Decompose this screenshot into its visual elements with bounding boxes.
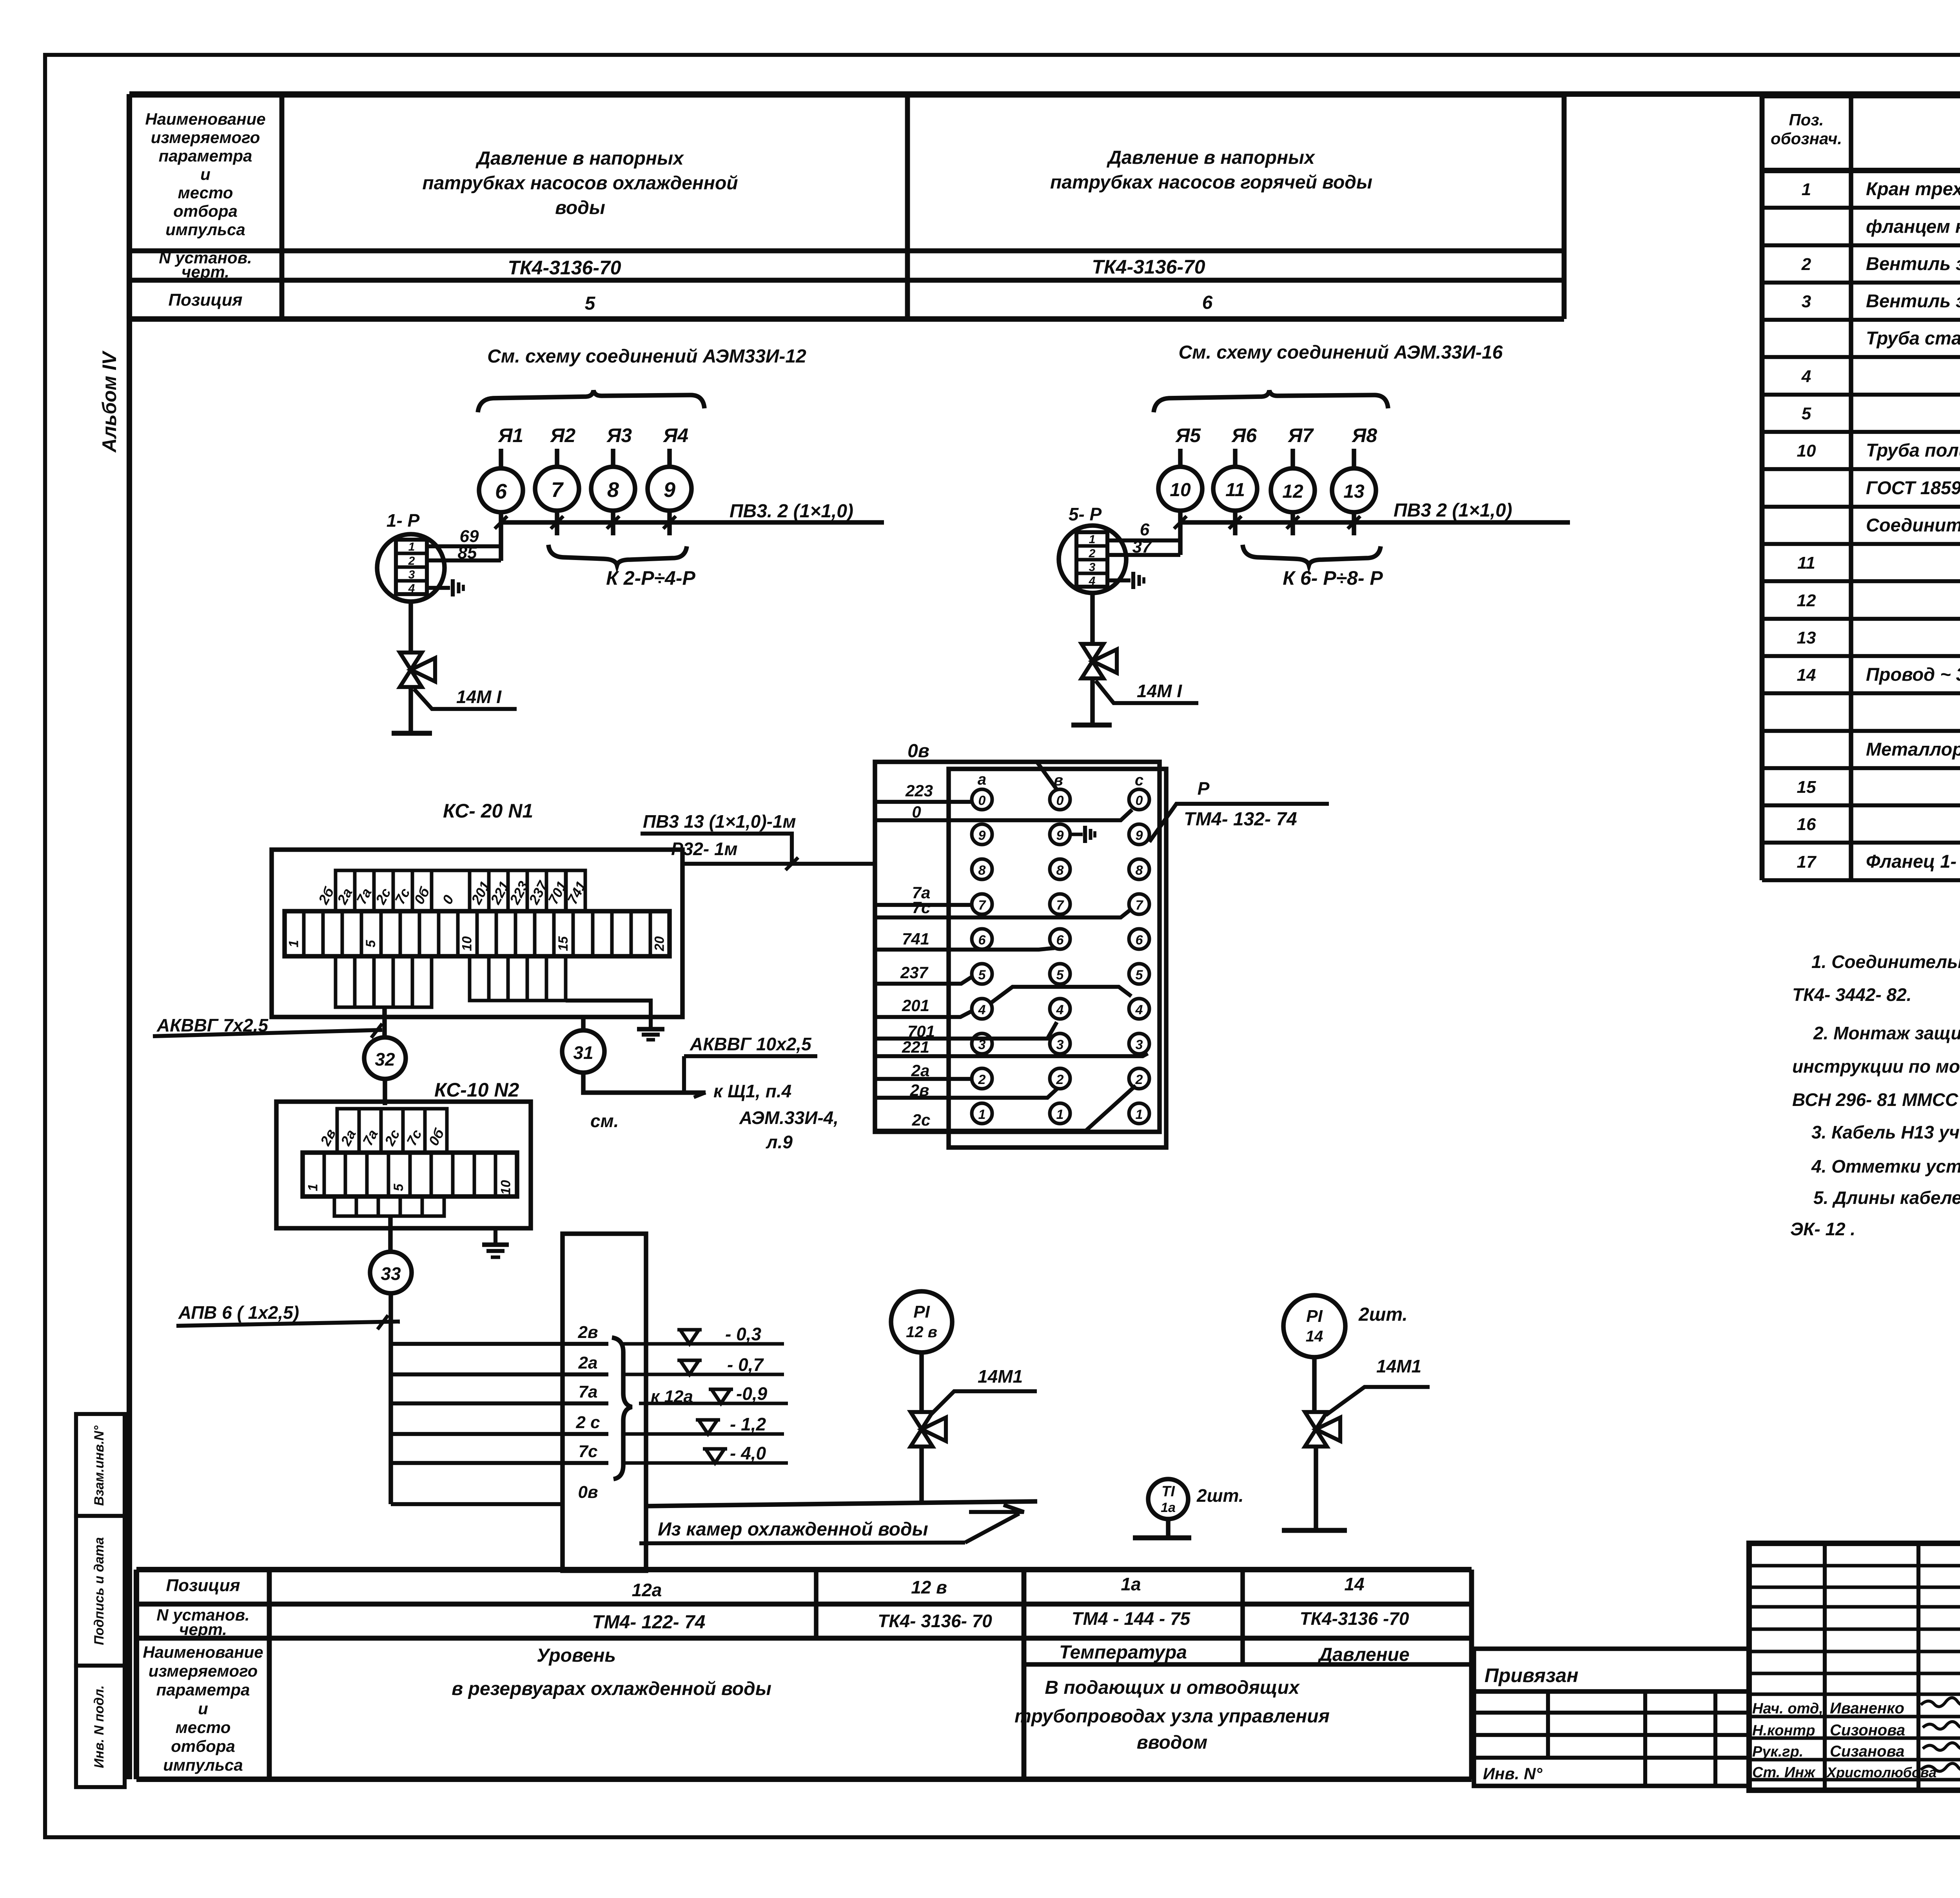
svg-text:Давление в напорных: Давление в напорных	[475, 148, 684, 169]
wire 37	[1107, 553, 1180, 557]
matrix terminal circles	[972, 789, 992, 810]
svg-text:2 с: 2 с	[575, 1413, 600, 1432]
svg-text:5: 5	[391, 1183, 406, 1191]
svg-text:АКВВГ 10х2,5: АКВВГ 10х2,5	[690, 1034, 812, 1054]
svg-text:с: с	[1135, 772, 1143, 789]
svg-text:Я8: Я8	[1351, 424, 1377, 446]
svg-text:л.9: л.9	[766, 1132, 793, 1152]
svg-text:Сизонова: Сизонова	[1830, 1722, 1905, 1739]
svg-text:Иваненко: Иваненко	[1830, 1700, 1904, 1717]
instrument circle 12	[1271, 468, 1315, 512]
svg-text:Фланец 1- 25 - 2,5 ст. 25: Фланец 1- 25 - 2,5 ст. 25 ГОСТ 12820 - 8…	[1866, 851, 1960, 872]
svg-text:16: 16	[1797, 815, 1816, 834]
svg-text:12: 12	[1797, 591, 1816, 610]
svg-text:черт.: черт.	[179, 1620, 227, 1639]
instrument circle 7	[535, 467, 579, 511]
svg-text:параметра: параметра	[156, 1680, 250, 1699]
wire KS-20 to 0v terminal box	[682, 862, 874, 866]
level wire 7a	[391, 1401, 608, 1405]
svg-text:2: 2	[1135, 1072, 1143, 1087]
svg-text:1: 1	[978, 1107, 986, 1122]
svg-text:Ст. Инж: Ст. Инж	[1752, 1764, 1816, 1781]
matrix wire 7c	[875, 908, 1132, 917]
privyazan box	[1474, 1649, 1749, 1691]
svg-text:Температура: Температура	[1059, 1642, 1187, 1663]
three-way valve 14MI group2	[1082, 644, 1103, 661]
svg-text:См. схему соединений АЭ: См. схему соединений АЭМ.33И-16	[1179, 342, 1503, 363]
cable 32 stem	[382, 1007, 387, 1037]
svg-text:3. Кабель Н13 учтен в ка: 3. Кабель Н13 учтен в кабельном журнале …	[1811, 1122, 1960, 1142]
shield ground of sensor 1-R	[427, 586, 450, 590]
svg-text:Нач. отд,: Нач. отд,	[1752, 1700, 1823, 1717]
svg-text:Провод ~ 380 В ГОСТ 6323- 79: Провод ~ 380 В ГОСТ 6323- 79 сечением	[1866, 664, 1960, 685]
svg-text:1: 1	[305, 1184, 320, 1191]
svg-text:5: 5	[1056, 968, 1064, 983]
water line from reservoir	[646, 1501, 1037, 1506]
stems from tags to instrument circles	[499, 449, 503, 468]
svg-text:Позиция: Позиция	[168, 290, 242, 310]
svg-text:ТМ4- 122- 74: ТМ4- 122- 74	[592, 1612, 706, 1633]
svg-text:Я2: Я2	[550, 424, 575, 446]
three-way valve 14MI group1	[400, 653, 422, 670]
svg-text:1: 1	[408, 540, 415, 553]
svg-text:2: 2	[408, 555, 415, 567]
thermometer TI 1a	[1148, 1479, 1188, 1519]
svg-text:9: 9	[664, 478, 675, 502]
svg-text:20: 20	[652, 936, 667, 952]
svg-text:2в: 2в	[577, 1323, 598, 1342]
svg-text:2а: 2а	[578, 1353, 598, 1372]
svg-text:10: 10	[499, 1180, 514, 1195]
stem circle32 to KC-10	[383, 1079, 387, 1105]
svg-text:3: 3	[1089, 561, 1096, 574]
matrix row4 jumper	[991, 987, 1131, 1003]
svg-text:3: 3	[408, 568, 415, 581]
svg-text:3: 3	[1056, 1037, 1064, 1052]
svg-text:импульса: импульса	[163, 1756, 243, 1774]
KC-10 lower terminal lugs	[334, 1196, 356, 1216]
KC-20 terminal strip 20 cells	[285, 911, 670, 956]
svg-text:отбора: отбора	[171, 1737, 235, 1755]
svg-text:Труба полиэтиленовая 10Т: Труба полиэтиленовая 10Т	[1866, 440, 1960, 460]
svg-text:5. Длины кабелей учт: 5. Длины кабелей учтены в кабельном журн…	[1813, 1187, 1960, 1208]
svg-text:В подающих и отводящих: В подающих и отводящих	[1045, 1677, 1300, 1698]
level wire 7c	[391, 1461, 608, 1465]
svg-text:3: 3	[1802, 292, 1811, 311]
svg-text:5: 5	[363, 939, 378, 947]
matrix wire 223	[875, 800, 972, 804]
svg-text:8: 8	[978, 863, 986, 878]
svg-text:2: 2	[1089, 547, 1096, 560]
svg-text:- 0,7: - 0,7	[727, 1354, 764, 1375]
svg-text:2с: 2с	[912, 1111, 931, 1129]
svg-text:0: 0	[978, 793, 986, 808]
signature rows	[1749, 1564, 1960, 1568]
svg-text:9: 9	[978, 828, 986, 843]
svg-text:ВСН 296- 81 ММСС СССР.: ВСН 296- 81 ММСС СССР.	[1792, 1089, 1960, 1110]
svg-text:Р: Р	[1198, 778, 1210, 799]
svg-text:7: 7	[978, 898, 987, 913]
svg-text:Я7: Я7	[1287, 424, 1314, 446]
svg-text:PI: PI	[913, 1302, 930, 1322]
svg-text:обознач.: обознач.	[1771, 129, 1842, 148]
svg-text:ТК4- 3136- 70: ТК4- 3136- 70	[878, 1611, 992, 1631]
svg-text:Вентиль запорный Ду32 15: Вентиль запорный Ду32 15 ч8 п2	[1866, 290, 1960, 311]
pipe stub ground group2	[1090, 678, 1095, 725]
shield symbol at b9	[1070, 833, 1083, 836]
svg-text:10: 10	[459, 936, 474, 951]
svg-text:14М I: 14М I	[1137, 681, 1182, 701]
svg-text:Из камер охлажденной воды: Из камер охлажденной воды	[658, 1519, 928, 1540]
pipe stub ground group1	[408, 687, 413, 733]
brace to 2-R..4-R	[548, 545, 687, 565]
svg-text:воды: воды	[555, 198, 605, 218]
svg-text:а: а	[978, 771, 986, 788]
brace over sensors Ya5-Ya8	[1154, 390, 1388, 412]
svg-text:ГОСТ 18599-73: ГОСТ 18599-73	[1866, 477, 1960, 498]
svg-text:- 0,3: - 0,3	[725, 1324, 761, 1344]
sidebar boxes	[76, 1414, 125, 1516]
svg-text:7: 7	[1056, 898, 1065, 913]
svg-text:7с: 7с	[912, 898, 931, 917]
svg-text:Альбом IV: Альбом IV	[98, 350, 120, 453]
wire 85	[427, 558, 501, 562]
svg-text:место: место	[178, 183, 233, 202]
junction box KC-20 N1 outline	[272, 850, 682, 1017]
svg-text:4: 4	[978, 1002, 986, 1017]
svg-text:Сизанова: Сизанова	[1830, 1743, 1904, 1760]
pressure sensor 1-R circle	[377, 534, 445, 602]
svg-text:741: 741	[902, 930, 929, 948]
svg-text:Н.контр: Н.контр	[1752, 1722, 1815, 1739]
svg-text:14: 14	[1344, 1574, 1364, 1594]
svg-text:ТК4-3136-70: ТК4-3136-70	[508, 257, 621, 279]
svg-text:32: 32	[375, 1049, 395, 1070]
svg-text:6: 6	[1056, 933, 1064, 948]
svg-text:1- Р: 1- Р	[387, 510, 420, 531]
svg-text:14М1: 14М1	[1376, 1356, 1421, 1376]
svg-text:Давление в напорных: Давление в напорных	[1106, 147, 1316, 168]
wire circle31 to panel Shch1	[583, 1073, 706, 1093]
svg-text:Привязан: Привязан	[1485, 1664, 1579, 1686]
svg-text:15: 15	[1797, 778, 1816, 797]
cable 31 stem	[581, 1017, 586, 1030]
stems below circles grp2	[1178, 511, 1183, 555]
cable bus PV3.2	[501, 520, 884, 525]
svg-text:Рук.гр.: Рук.гр.	[1752, 1744, 1803, 1760]
matrix wire 237	[875, 977, 972, 984]
svg-text:место: место	[176, 1718, 231, 1737]
valve at PI 12v	[911, 1412, 933, 1429]
cable bus PV3 2 grp2	[1180, 520, 1570, 525]
svg-text:Я6: Я6	[1231, 424, 1257, 446]
matrix wire 201	[875, 1011, 972, 1017]
title block outline	[1749, 1543, 1960, 1790]
svg-text:Взам.инв.N°: Взам.инв.N°	[92, 1425, 107, 1506]
stems below circles crossing bus	[499, 512, 503, 561]
svg-text:черт.: черт.	[181, 263, 229, 281]
instrument circle 8	[591, 467, 635, 511]
0v inner terminal box	[949, 769, 1166, 1148]
matrix wire 221	[875, 1053, 1148, 1056]
svg-text:12 в: 12 в	[906, 1323, 937, 1341]
valve at PI 14	[1305, 1412, 1327, 1429]
matrix wire 2v	[875, 1088, 1058, 1098]
svg-text:0в: 0в	[578, 1483, 598, 1502]
svg-text:АЭМ.33И-4,: АЭМ.33И-4,	[739, 1108, 838, 1128]
shield ground of sensor 5-R	[1107, 578, 1131, 582]
svg-text:1а: 1а	[1121, 1574, 1141, 1594]
svg-text:4: 4	[1801, 367, 1811, 386]
svg-text:1а: 1а	[1161, 1500, 1176, 1515]
svg-text:Я4: Я4	[662, 424, 688, 446]
svg-text:см.: см.	[590, 1111, 619, 1131]
svg-text:отбора: отбора	[173, 202, 238, 220]
5-R terminal strip	[1076, 532, 1107, 587]
matrix wire 7a	[875, 903, 972, 907]
stub below PI 14	[1314, 1447, 1318, 1530]
svg-text:ПВ3 2 (1×1,0): ПВ3 2 (1×1,0)	[1394, 500, 1512, 521]
KC-10 upper terminal lugs	[337, 1109, 359, 1153]
matrix wire 701	[875, 1022, 1057, 1039]
svg-text:Позиция: Позиция	[166, 1576, 240, 1595]
svg-text:5: 5	[1802, 404, 1811, 423]
KC-20 upper terminal lugs	[336, 870, 355, 911]
wire 6 from 5-R	[1107, 538, 1180, 542]
brace of level wires	[612, 1338, 632, 1479]
svg-text:1: 1	[1802, 180, 1811, 199]
instrument circle 10	[1158, 467, 1202, 511]
svg-text:1: 1	[287, 940, 301, 948]
cable number circle 31	[562, 1030, 604, 1073]
KC-20 ground symbol	[649, 1017, 653, 1028]
svg-text:ТМ4 - 144 - 75: ТМ4 - 144 - 75	[1072, 1608, 1191, 1629]
instrument circle 9	[648, 467, 691, 511]
svg-text:14: 14	[1797, 665, 1816, 685]
cable number circle 32	[364, 1037, 406, 1079]
stems from tags to circles grp2	[1178, 449, 1183, 466]
svg-text:в резервуарах охлажденной: в резервуарах охлажденной воды	[452, 1679, 771, 1699]
svg-text:14М I: 14М I	[456, 687, 502, 707]
svg-text:15: 15	[556, 936, 571, 951]
svg-text:ТК4- 3442- 82.: ТК4- 3442- 82.	[1792, 984, 1911, 1005]
level wire 2v	[391, 1342, 608, 1346]
svg-text:-0,9: -0,9	[736, 1383, 768, 1404]
svg-text:2. Монтаж защитного занул: 2. Монтаж защитного зануления выполнить …	[1813, 1023, 1960, 1043]
svg-text:и: и	[200, 165, 211, 183]
svg-text:трубопроводах узла управлени: трубопроводах узла управления	[1014, 1706, 1330, 1727]
svg-text:ПВ3. 2 (1×1,0): ПВ3. 2 (1×1,0)	[730, 501, 853, 522]
svg-text:2: 2	[978, 1072, 986, 1087]
svg-text:измеряемого: измеряемого	[149, 1662, 258, 1680]
svg-text:измеряемого: измеряемого	[151, 128, 260, 147]
svg-text:11: 11	[1225, 480, 1245, 500]
svg-text:7: 7	[551, 478, 564, 502]
svg-text:Соединительная коробка ТУ36.: Соединительная коробка ТУ36.2568 -83	[1866, 515, 1960, 535]
svg-text:10: 10	[1170, 480, 1191, 500]
svg-text:9: 9	[1136, 828, 1143, 843]
svg-text:ТК4-3136-70: ТК4-3136-70	[1092, 256, 1205, 278]
svg-text:Металлорукав ТУ22- 5570 -: Металлорукав ТУ22- 5570 - 83	[1866, 739, 1960, 760]
KC-20 internal earth link	[566, 1001, 651, 1017]
svg-text:патрубках насосов горячей в: патрубках насосов горячей воды	[1050, 172, 1372, 193]
svg-text:31: 31	[573, 1042, 593, 1063]
svg-text:13: 13	[1797, 628, 1816, 647]
svg-text:ТК4-3136 -70: ТК4-3136 -70	[1300, 1608, 1409, 1629]
svg-text:14М1: 14М1	[978, 1366, 1023, 1387]
svg-text:Уровень: Уровень	[537, 1645, 616, 1666]
instrument circle 11	[1213, 467, 1257, 511]
pressure gauge PI 12v	[891, 1291, 952, 1352]
svg-text:параметра: параметра	[159, 147, 252, 165]
level mark -1.2	[623, 1432, 784, 1436]
svg-text:5: 5	[978, 968, 986, 983]
svg-text:- 4,0: - 4,0	[730, 1443, 766, 1463]
svg-text:Я3: Я3	[606, 424, 632, 446]
svg-text:14: 14	[1306, 1328, 1323, 1345]
pressure gauge PI 14	[1283, 1295, 1345, 1357]
svg-text:Вентиль запорный Ду15 П3220: Вентиль запорный Ду15 П322038ВИ	[1866, 253, 1960, 274]
svg-text:5- Р: 5- Р	[1069, 504, 1102, 524]
svg-text:к Щ1, п.4: к Щ1, п.4	[713, 1081, 791, 1101]
matrix wire 0	[875, 810, 1132, 820]
svg-text:патрубках насосов охлажденно: патрубках насосов охлажденной	[422, 173, 738, 194]
svg-text:85: 85	[458, 543, 477, 562]
signature columns	[1823, 1543, 1827, 1790]
trunk below circle 33	[388, 1293, 393, 1504]
svg-text:12: 12	[1282, 481, 1303, 502]
svg-text:Я1: Я1	[497, 424, 523, 446]
svg-text:6: 6	[495, 480, 507, 503]
svg-text:АПВ 6 ( 1х2,5): АПВ 6 ( 1х2,5)	[178, 1302, 299, 1323]
svg-text:237: 237	[900, 963, 929, 982]
svg-text:КС-10 N2: КС-10 N2	[434, 1079, 519, 1101]
level mark -0.3	[623, 1342, 784, 1346]
svg-text:0: 0	[1136, 793, 1143, 808]
level wire 2c	[391, 1432, 608, 1436]
svg-text:6: 6	[978, 933, 986, 948]
svg-text:6: 6	[1202, 292, 1213, 313]
svg-text:33: 33	[381, 1264, 401, 1284]
KC-20 lower terminal lugs	[336, 956, 355, 1007]
cable number circle 33	[370, 1252, 412, 1293]
svg-text:инструкции по монтажу за: инструкции по монтажу защитного заземлен…	[1792, 1056, 1960, 1077]
svg-text:201: 201	[902, 996, 929, 1015]
svg-text:Инв. N°: Инв. N°	[1483, 1764, 1543, 1783]
instrument circle 13	[1332, 468, 1376, 512]
svg-text:12 в: 12 в	[911, 1577, 947, 1597]
svg-text:5: 5	[585, 293, 596, 314]
signature scribbles	[1921, 1698, 1960, 1707]
svg-text:См. схему соединений АЭМ33И: См. схему соединений АЭМ33И-12	[487, 346, 806, 367]
svg-text:0: 0	[912, 803, 921, 821]
svg-text:2шт.: 2шт.	[1196, 1485, 1244, 1506]
svg-text:TI: TI	[1161, 1483, 1175, 1500]
specification table	[1762, 93, 1960, 98]
svg-text:Я5: Я5	[1175, 424, 1201, 446]
svg-text:6: 6	[1140, 520, 1150, 539]
svg-text:Подпись и дата: Подпись и дата	[92, 1537, 107, 1645]
svg-text:2шт.: 2шт.	[1358, 1304, 1408, 1325]
level mark -0.9	[639, 1402, 788, 1405]
impulse line down from 5-R	[1090, 593, 1095, 644]
brace to 6-R..8-R	[1243, 545, 1381, 565]
level wire 0v	[391, 1502, 563, 1506]
svg-text:5: 5	[1136, 968, 1143, 983]
privyazan grid	[1474, 1691, 1749, 1786]
1-R terminal strip	[396, 540, 427, 594]
svg-text:2а: 2а	[911, 1061, 930, 1080]
svg-text:Инв. N подл.: Инв. N подл.	[92, 1685, 107, 1768]
svg-text:фланцем к манометру 14М1: фланцем к манометру 14М1	[1866, 216, 1960, 237]
svg-text:1: 1	[1056, 1107, 1064, 1122]
svg-text:221: 221	[902, 1038, 929, 1056]
svg-text:17: 17	[1797, 852, 1817, 872]
svg-text:1: 1	[1136, 1107, 1143, 1122]
svg-text:6: 6	[1136, 933, 1143, 948]
junction box KC-10 N2 outline	[276, 1102, 531, 1228]
svg-text:1: 1	[1089, 533, 1096, 546]
svg-text:Поз.: Поз.	[1789, 111, 1824, 129]
svg-text:12а: 12а	[632, 1580, 662, 1600]
svg-text:импульса: импульса	[165, 220, 245, 239]
reservoir column	[563, 1234, 646, 1571]
svg-text:КС- 20 N1: КС- 20 N1	[443, 800, 533, 822]
svg-text:11: 11	[1797, 553, 1815, 573]
svg-text:7: 7	[1136, 898, 1144, 913]
impulse line down from 1-R	[408, 602, 413, 653]
svg-text:7с: 7с	[579, 1442, 598, 1461]
svg-text:4: 4	[408, 582, 415, 595]
leader to register label R	[1149, 804, 1329, 842]
svg-text:223: 223	[905, 781, 933, 800]
wire 69 from 1-R to circle 6 stem	[427, 544, 501, 548]
0v outer box	[875, 762, 1160, 1132]
level wire 2a	[391, 1372, 608, 1376]
matrix wire 2a	[875, 1077, 972, 1081]
KC-10 terminal strip 10 cells	[303, 1153, 517, 1196]
top header table	[129, 92, 1564, 98]
svg-text:2: 2	[1801, 255, 1811, 274]
svg-text:Кран трехходовой с контрольн: Кран трехходовой с контрольным	[1866, 178, 1960, 199]
svg-text:2: 2	[1056, 1072, 1064, 1087]
svg-text:- 1,2: - 1,2	[730, 1414, 766, 1434]
svg-text:7а: 7а	[579, 1382, 598, 1401]
svg-text:8: 8	[1056, 863, 1064, 878]
svg-text:9: 9	[1056, 828, 1064, 843]
svg-text:10: 10	[1797, 441, 1816, 460]
pressure sensor 5-R circle	[1059, 526, 1126, 593]
bottom header table	[136, 1567, 1472, 1572]
svg-text:4: 4	[1056, 1002, 1064, 1017]
level mark -4.0	[623, 1461, 788, 1465]
svg-text:1. Соединительные коробки К: 1. Соединительные коробки КС установить …	[1811, 952, 1960, 972]
svg-text:Давление: Давление	[1317, 1644, 1409, 1665]
svg-text:4. Отметки установки датч: 4. Отметки установки датчиков ЭРСУ – 4 у…	[1811, 1156, 1960, 1177]
svg-text:37: 37	[1132, 537, 1152, 557]
svg-text:2в: 2в	[910, 1081, 929, 1099]
level mark -0.7	[623, 1373, 784, 1376]
svg-text:и: и	[198, 1699, 208, 1718]
svg-text:вводом: вводом	[1137, 1732, 1208, 1753]
svg-text:8: 8	[607, 478, 619, 502]
svg-text:Наименование: Наименование	[145, 110, 265, 128]
matrix wire 2c	[875, 1086, 1136, 1131]
svg-text:Христолюбова: Христолюбова	[1826, 1764, 1936, 1780]
svg-text:0в: 0в	[907, 741, 929, 761]
matrix wire 741	[875, 948, 1054, 950]
svg-text:13: 13	[1343, 481, 1365, 502]
